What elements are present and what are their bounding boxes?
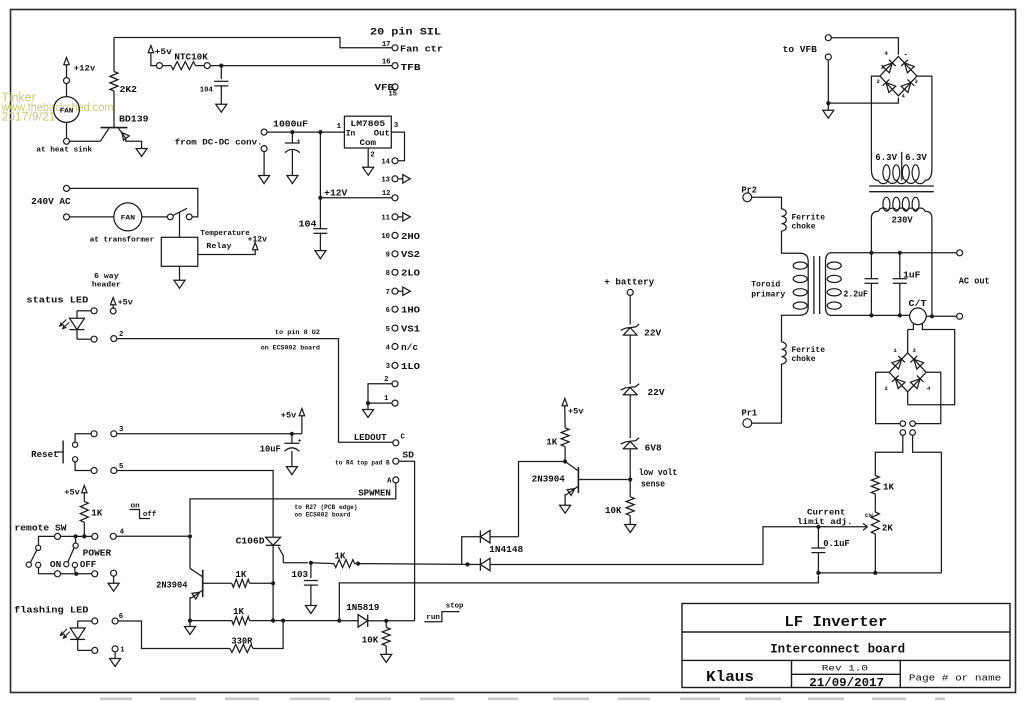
pin header (flashing cathode) <box>92 647 98 653</box>
current transformer C/T <box>909 298 957 324</box>
ground (1000uF) <box>287 176 298 184</box>
resistor 1K (Q3 collector) <box>546 407 569 462</box>
svg-text:AC out: AC out <box>959 275 990 286</box>
pin (fan connector bottom) <box>64 138 70 144</box>
fan at heat sink <box>36 97 92 155</box>
wire pin 2 to LEDOUT <box>117 329 393 442</box>
svg-text:8: 8 <box>386 270 390 278</box>
ground (Q3 emitter) <box>560 505 571 513</box>
zener 22V (1) <box>621 324 662 384</box>
resistor 330R <box>230 623 283 653</box>
transistor Q3 2N3904 (low volt) <box>532 462 628 506</box>
wire +5v to NTC pin <box>151 54 157 66</box>
resistor 10K (run/stop) <box>362 621 390 655</box>
power +5v (power switch pullup) <box>64 486 87 498</box>
pin A SPWMEN <box>358 477 399 499</box>
page field <box>909 673 1002 684</box>
transformer 230V primary <box>871 197 932 316</box>
pin 1 (flashing LED) <box>112 646 125 659</box>
svg-text:on ECS002 board: on ECS002 board <box>295 512 351 520</box>
svg-text:to VFB: to VFB <box>783 44 818 55</box>
bridge rectifier BR2 (current sense) <box>885 330 932 405</box>
svg-text:ON: ON <box>50 559 61 570</box>
wire top rail to pin 17 <box>114 38 392 48</box>
wire DC-DC to LM7805 In <box>267 131 344 133</box>
wire switch actuator to relay <box>179 212 181 237</box>
6 way header label <box>92 273 121 290</box>
pin to VFB bottom <box>825 54 831 60</box>
svg-text:2N3904: 2N3904 <box>532 474 565 485</box>
svg-text:primary: primary <box>751 289 785 299</box>
wire toroid secondary top rail <box>832 252 957 254</box>
svg-text:cw: cw <box>865 512 874 520</box>
svg-text:Pr2: Pr2 <box>741 184 757 195</box>
pin plug top left <box>900 421 906 427</box>
svg-text:Ferrite: Ferrite <box>792 345 826 355</box>
wire LM7805 Out to pin 14 <box>391 132 404 161</box>
svg-text:Fan ctr: Fan ctr <box>400 45 443 55</box>
svg-text:from DC-DC conv.: from DC-DC conv. <box>175 138 263 148</box>
node LM7805 In junction <box>318 130 322 134</box>
svg-text:1N4148: 1N4148 <box>489 544 523 555</box>
svg-text:POWER: POWER <box>83 548 112 559</box>
regulator U1 LM7805 <box>337 116 399 159</box>
pin 240V AC top <box>31 185 71 207</box>
pin 15 VFB <box>375 83 399 98</box>
pin 17 Fan ctr <box>382 41 443 55</box>
toroid core <box>814 256 820 314</box>
pushbutton Reset <box>31 441 78 464</box>
svg-text:6V8: 6V8 <box>645 442 662 453</box>
svg-text:C: C <box>401 434 406 442</box>
svg-text:2LO: 2LO <box>401 269 421 279</box>
relay K1 Temperature Relay <box>161 230 250 266</box>
ground (10uF) <box>286 467 297 475</box>
svg-text:on ECS002 board: on ECS002 board <box>261 345 320 353</box>
svg-text:16: 16 <box>382 59 391 67</box>
node low volt sense <box>628 467 677 490</box>
svg-text:+: + <box>884 51 889 59</box>
diode D5 1N5819 <box>346 602 383 627</box>
wire 240V bottom to fan <box>70 216 114 218</box>
svg-text:1K: 1K <box>546 437 557 448</box>
pin 12 <box>382 190 398 201</box>
wire LM7805 Com to ground <box>367 148 369 167</box>
svg-text:+5v: +5v <box>155 47 172 57</box>
pin 240V AC bottom <box>64 214 70 220</box>
svg-text:VS2: VS2 <box>401 250 420 260</box>
svg-text:n/c: n/c <box>401 343 418 353</box>
switch POWER ON/OFF <box>50 536 112 572</box>
svg-text:+: + <box>298 438 302 445</box>
capacitor 103 <box>292 563 318 606</box>
svg-text:15: 15 <box>388 90 397 98</box>
svg-text:240V AC: 240V AC <box>31 196 71 207</box>
svg-text:to pin 8 U2: to pin 8 U2 <box>275 329 320 337</box>
node 330R junction <box>281 619 285 623</box>
wire pin to fan <box>66 84 68 97</box>
svg-text:3: 3 <box>119 426 123 434</box>
wire pin 3 to +5v / 10uF <box>117 433 302 435</box>
pin 8 2LO <box>386 269 421 279</box>
rev 1.0 <box>822 664 868 674</box>
wire NTC to pin 16 TFB <box>210 65 392 67</box>
pin plug bottom left <box>900 430 906 436</box>
wire relay to ground <box>179 266 181 280</box>
potentiometer 2K Current limit adj. <box>797 508 893 573</box>
wire SD row to 1N5819 <box>339 620 358 622</box>
capacitor 104 (+12V filter) <box>299 198 328 251</box>
wire plug right to bottom rail <box>913 435 942 573</box>
svg-text:+12v: +12v <box>74 63 95 73</box>
svg-text:2: 2 <box>119 331 123 339</box>
svg-text:103: 103 <box>292 569 309 580</box>
transformer T1 6.3V secondary <box>871 152 932 184</box>
wire SPWMEN to power switch node <box>190 483 396 534</box>
svg-text:NTC10K: NTC10K <box>174 52 208 63</box>
ground (10K) <box>625 525 636 533</box>
svg-text:Rev 1.0: Rev 1.0 <box>822 664 868 674</box>
node 10uF junction <box>290 432 294 436</box>
svg-text:1HO: 1HO <box>401 306 421 316</box>
wire 240V top to switch <box>70 188 198 217</box>
svg-text:LM7805: LM7805 <box>350 120 385 129</box>
node 1K junction (top row) <box>82 534 86 538</box>
pin C LEDOUT <box>354 432 406 446</box>
resistor 1K (Q2 base) <box>232 569 273 587</box>
svg-text:status LED: status LED <box>26 295 88 306</box>
svg-text:+: + <box>297 138 301 145</box>
svg-text:+12V: +12V <box>324 187 348 198</box>
pin header (LED anode) <box>91 308 97 314</box>
wire choke 2 to Pr1 <box>752 364 782 423</box>
svg-text:10K: 10K <box>362 635 379 646</box>
node 1000uF junction <box>290 130 294 134</box>
svg-text:3: 3 <box>386 363 390 371</box>
svg-text:choke: choke <box>792 222 816 232</box>
LED D2 flashing <box>60 621 85 650</box>
node C106D cathode / base 1K <box>271 581 275 585</box>
wire flashing LED anode to header <box>78 620 92 622</box>
wire C/T to sense bridge left <box>908 324 914 330</box>
pin (from DC-DC conv +) <box>175 118 309 147</box>
svg-text:OFF: OFF <box>80 559 97 570</box>
zener 6V8 <box>621 438 662 480</box>
pin (power top right) <box>92 533 98 539</box>
svg-text:5: 5 <box>119 463 123 471</box>
svg-text:1K: 1K <box>335 551 346 562</box>
pin plug top right <box>910 421 916 427</box>
svg-text:off: off <box>143 511 157 519</box>
capacitor 1uF <box>893 253 921 316</box>
wire fan pin to BD139 base <box>70 140 101 142</box>
pin B SD <box>335 451 415 468</box>
pin 6 1HO <box>386 306 421 316</box>
svg-text:A: A <box>387 477 392 485</box>
svg-text:5: 5 <box>386 326 390 334</box>
pin 3 1LO <box>386 362 421 372</box>
svg-text:LF Inverter: LF Inverter <box>784 614 887 631</box>
svg-text:2: 2 <box>370 151 375 159</box>
wire Pr2 to ferrite choke <box>752 197 782 209</box>
svg-text:2HO: 2HO <box>401 232 421 242</box>
resistor 1K (emitter row) <box>190 606 339 624</box>
ground (+12V filter) <box>315 251 326 259</box>
wire fan to switch contact <box>142 216 168 218</box>
svg-text:Toroid: Toroid <box>751 280 780 290</box>
relay switch contacts <box>167 208 192 220</box>
svg-text:10K: 10K <box>605 505 622 516</box>
svg-text:Klaus: Klaus <box>706 669 754 686</box>
flashing LED label <box>14 605 89 616</box>
wire +12V node to pin 12 <box>320 197 392 199</box>
wire pin 5 to C106D anode <box>117 471 273 538</box>
node 0.1uF bottom <box>816 571 820 575</box>
svg-text:12: 12 <box>382 190 391 198</box>
node C106D cathode row <box>271 619 275 623</box>
wire LED cathode to header <box>77 338 91 340</box>
svg-text:1: 1 <box>384 395 389 403</box>
wire fan to pin <box>66 122 68 138</box>
capacitor 0.1uF <box>811 527 850 573</box>
ground (pin 1 flashing) <box>110 659 121 667</box>
svg-text:14: 14 <box>381 159 390 167</box>
svg-text:header: header <box>92 282 121 290</box>
wire bottom switch row <box>39 568 92 574</box>
svg-text:run: run <box>426 614 440 622</box>
power +5v (low volt sense) <box>562 399 583 417</box>
pin 16 TFB <box>382 59 421 73</box>
svg-text:LEDOUT: LEDOUT <box>354 432 387 443</box>
svg-text:2: 2 <box>885 385 888 392</box>
wire Q2 base to 1K <box>204 582 232 584</box>
pin (NTC right) <box>204 63 210 69</box>
node TFB junction <box>219 64 223 68</box>
fan at transformer <box>90 203 155 245</box>
zener 22V (2) <box>621 384 665 438</box>
wire LED anode to header <box>77 310 91 312</box>
resistor 1K (power switch pullup) <box>80 494 102 537</box>
capacitor 2.2uF <box>844 253 879 316</box>
pin (power gnd) <box>111 570 117 583</box>
svg-text:104: 104 <box>200 87 213 95</box>
node SD branch <box>337 576 818 623</box>
svg-text:C/T: C/T <box>909 298 927 309</box>
power +5v (NTC) <box>148 46 172 58</box>
ground (pins 1-2) <box>363 403 374 417</box>
svg-text:1: 1 <box>337 123 342 131</box>
svg-text:6: 6 <box>386 307 390 315</box>
transistor Q2 2N3904 <box>156 536 203 620</box>
ferrite choke (top) <box>782 209 826 232</box>
pin 14 <box>381 158 398 167</box>
thyristor U2 C106D <box>236 536 284 621</box>
svg-text:2N3904: 2N3904 <box>156 580 188 591</box>
svg-text:2K: 2K <box>882 523 893 534</box>
svg-text:2K2: 2K2 <box>120 84 138 95</box>
svg-text:TFB: TFB <box>401 63 422 73</box>
title block <box>682 604 1010 688</box>
node pins 1-2 junction <box>366 401 370 405</box>
date 21/09/2017 <box>809 676 884 690</box>
svg-text:remote SW: remote SW <box>15 523 67 534</box>
svg-text:at heat sink: at heat sink <box>36 147 92 155</box>
svg-text:limit adj.: limit adj. <box>797 517 853 527</box>
pin 3 (reset) <box>111 426 124 437</box>
pin 9 VS2 <box>386 250 420 260</box>
svg-text:1K: 1K <box>233 606 244 617</box>
wire In node down to +12V node <box>319 132 321 198</box>
svg-text:SPWMEN: SPWMEN <box>358 488 391 499</box>
power +5v (reset pullup) <box>281 409 305 434</box>
node Q3 collector <box>563 459 567 463</box>
wire bridge right to plug <box>916 372 941 423</box>
capacitor 104 (TFB filter) <box>200 66 229 105</box>
svg-text:11: 11 <box>381 215 390 223</box>
pin (from DC-DC conv -) <box>261 146 267 176</box>
ferrite choke (bottom) <box>782 342 826 364</box>
pin 13 <box>381 175 410 185</box>
LED D1 status <box>60 311 85 339</box>
svg-text:1: 1 <box>120 647 125 655</box>
svg-text:+5v: +5v <box>281 411 297 421</box>
svg-text:Interconnect board: Interconnect board <box>770 643 905 657</box>
transformer T2 toroid secondary right <box>826 253 842 316</box>
svg-text:Reset: Reset <box>31 449 59 460</box>
pin +5v (status LED) <box>110 305 116 314</box>
pin plug bottom right <box>910 430 916 436</box>
svg-text:to R4 top pad B: to R4 top pad B <box>335 460 390 468</box>
node 2.2uF bottom <box>869 313 873 317</box>
node VFB ground junction <box>826 101 830 110</box>
wire VFB bottom to bridge - <box>828 60 898 103</box>
wire pin 6 to 330R <box>118 621 230 649</box>
wire plug left to 1K <box>875 435 903 475</box>
svg-text:1K: 1K <box>91 508 103 519</box>
ground (DC-DC -) <box>259 176 270 184</box>
pin (power bottom right) <box>92 571 98 577</box>
node 230V right junction <box>930 314 934 318</box>
wire C106D gate row <box>283 562 308 564</box>
svg-text:2: 2 <box>877 78 880 85</box>
svg-text:1000uF: 1000uF <box>273 118 308 129</box>
pin 2 (status LED) <box>111 331 124 342</box>
pin header (flashing anode) <box>92 618 98 624</box>
author Klaus <box>706 669 754 686</box>
svg-text:Relay: Relay <box>206 243 232 251</box>
pin 1 <box>384 395 398 406</box>
svg-text:VS1: VS1 <box>401 325 421 335</box>
pin 11 <box>381 213 410 223</box>
svg-text:1K: 1K <box>883 482 894 493</box>
svg-text:stop: stop <box>446 603 464 611</box>
wire bridge left to 6.3V winding <box>871 76 880 161</box>
wire C/T to sense bridge right <box>908 324 955 405</box>
svg-text:10: 10 <box>381 233 390 241</box>
svg-text:C106D: C106D <box>236 536 265 547</box>
resistor 1K (gate) <box>311 551 358 568</box>
svg-text:2: 2 <box>384 376 388 384</box>
thermistor NTC10K <box>162 52 208 70</box>
diode D3 1N4148 (upper) <box>462 531 524 565</box>
wire top switch row <box>39 536 92 545</box>
node power bottom junction <box>74 572 78 576</box>
status LED label <box>26 295 88 306</box>
wire bridge left to plug <box>876 372 900 423</box>
node pin4/SPWMEN/collector <box>188 534 192 538</box>
node 1uF bottom <box>898 313 902 317</box>
node power switch top junction <box>74 534 78 538</box>
capacitor 1000uF <box>285 132 301 175</box>
wire reset top to header <box>75 434 91 442</box>
svg-text:Ferrite: Ferrite <box>792 213 826 223</box>
wire SD down to run/stop line <box>399 461 415 621</box>
pin Pr2 <box>741 184 757 201</box>
capacitor 10uF <box>260 434 302 467</box>
svg-text:4: 4 <box>120 529 125 537</box>
bridge rectifier BR1 <box>877 51 919 100</box>
node diode T junction <box>465 562 469 566</box>
svg-text:Current: Current <box>807 508 845 517</box>
ground (10K run/stop) <box>381 654 392 662</box>
svg-text:330R: 330R <box>231 636 252 647</box>
transistor Q1 BD139 <box>100 114 149 149</box>
pin 4 n/c <box>386 343 418 353</box>
header 20 pin SIL title <box>370 27 441 39</box>
diode D4 1N4148 (lower) <box>480 558 763 570</box>
svg-text:0.1uF: 0.1uF <box>823 538 850 549</box>
ground (power gnd pin) <box>108 583 119 591</box>
svg-text:BD139: BD139 <box>119 114 149 125</box>
svg-text:17: 17 <box>382 41 391 49</box>
wire pin 4 to transistor node <box>116 535 190 537</box>
svg-text:6.3V: 6.3V <box>875 152 897 163</box>
pin AC out bottom <box>957 313 963 319</box>
svg-text:flashing LED: flashing LED <box>14 605 89 616</box>
pin (remote top) <box>55 533 61 539</box>
svg-text:6: 6 <box>119 613 123 621</box>
ground (relay) <box>174 280 185 288</box>
run/stop level annotation <box>424 603 463 623</box>
pin (fan connector top) <box>64 78 70 84</box>
svg-text:3: 3 <box>394 122 399 130</box>
svg-text:SD: SD <box>402 451 414 461</box>
svg-text:-: - <box>904 52 909 60</box>
svg-text:Page # or name: Page # or name <box>909 673 1002 684</box>
ground (VFB) <box>823 110 834 118</box>
transformer T2 toroid primary left <box>751 262 808 316</box>
title LF Inverter <box>784 614 887 631</box>
wire collector to 1N4148 <box>519 462 566 537</box>
wire toroid secondary bottom rail <box>832 314 910 316</box>
svg-text:22V: 22V <box>644 328 661 339</box>
wire pin 2 to ground rail <box>368 384 392 403</box>
svg-text:FAN: FAN <box>121 215 136 223</box>
svg-text:Temperature: Temperature <box>200 230 250 238</box>
resistor 2K2 <box>110 38 137 128</box>
wire VFB top to bridge + <box>831 38 898 55</box>
pin 7 <box>386 287 411 297</box>
node emitter/1K row <box>188 619 192 623</box>
switch remote SW <box>26 545 41 567</box>
node 0.1uF top <box>816 525 820 529</box>
svg-text:+12v: +12v <box>248 235 267 245</box>
node gate 1K junction <box>356 562 480 566</box>
svg-text:+5v: +5v <box>118 298 133 308</box>
pin header (LED cathode) <box>91 336 97 342</box>
svg-text:In: In <box>346 129 356 138</box>
svg-text:+5v: +5v <box>64 488 80 498</box>
